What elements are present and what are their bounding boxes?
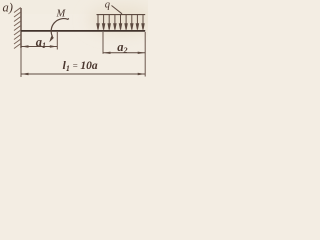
- svg-text:M: M: [56, 9, 67, 20]
- dimension a2 right arrowhead: [138, 52, 145, 54]
- q leader line: [112, 6, 123, 14]
- svg-text:а): а): [3, 1, 13, 15]
- extension line at beam right end: [144, 32, 146, 77]
- extension line at a1 right end: [56, 32, 58, 50]
- moment M arc: [51, 19, 69, 37]
- dimension a1 line: [21, 46, 57, 48]
- dimension l1 right arrowhead: [138, 73, 145, 75]
- moment M arrowhead: [49, 36, 54, 42]
- extension line at a2 left end: [102, 32, 104, 54]
- dimension a1 right arrowhead: [50, 45, 57, 47]
- paper background: [0, 0, 148, 98]
- beam: [21, 30, 145, 32]
- distributed load arrows: [97, 15, 144, 30]
- dimension l1 left arrowhead: [21, 73, 28, 75]
- wall hatching: [14, 8, 21, 49]
- dimension a1 left arrowhead: [21, 45, 28, 47]
- dimension a2 left arrowhead: [103, 52, 110, 54]
- dimension l1=10a line: [21, 73, 145, 75]
- distributed load top line: [97, 14, 146, 16]
- extension line below wall: [20, 48, 22, 77]
- svg-text:q: q: [105, 0, 110, 11]
- dimension a2 line: [103, 52, 145, 54]
- fixed support wall: [20, 8, 22, 48]
